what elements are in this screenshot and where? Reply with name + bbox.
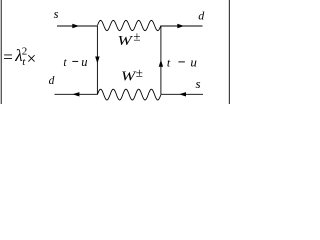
- arrow on top-right fermion line (pointing right): [177, 24, 184, 28]
- svg-text:s: s: [54, 7, 59, 21]
- label W+- (top boson): [118, 29, 141, 49]
- svg-text:×: ×: [27, 49, 37, 68]
- svg-text:W: W: [118, 33, 134, 48]
- svg-text:s: s: [196, 76, 201, 91]
- prefactor formula = lambda_t^2 x: [3, 46, 36, 69]
- wire: top-right fermion line d: [161, 25, 203, 27]
- arrow on bottom-right fermion line (pointing left): [179, 92, 186, 96]
- internal quark line left vertical: [96, 26, 98, 94]
- wire: top-left fermion line s: [57, 25, 97, 27]
- svg-text:d: d: [49, 75, 55, 87]
- svg-text:=: =: [3, 48, 13, 67]
- svg-text:u: u: [190, 55, 197, 70]
- svg-text:±: ±: [133, 29, 140, 44]
- wire: bottom-right fermion line s: [161, 93, 203, 95]
- internal quark line right vertical: [160, 26, 162, 94]
- label t-u (left internal quark): [63, 55, 87, 69]
- W boson propagator top (wavy): [97, 20, 160, 30]
- svg-text:u: u: [81, 55, 87, 69]
- arrow on bottom-left fermion line (pointing left): [72, 92, 79, 96]
- svg-text:±: ±: [136, 65, 143, 80]
- right column rule: [228, 0, 230, 104]
- svg-text:t: t: [167, 56, 171, 70]
- svg-text:t: t: [63, 57, 67, 69]
- W boson propagator bottom (wavy): [97, 89, 160, 100]
- label W+- (bottom boson): [121, 65, 143, 84]
- left column rule: [0, 0, 2, 104]
- arrow on top-left fermion line (pointing right): [72, 24, 79, 28]
- arrow on left internal line (pointing down): [95, 57, 99, 64]
- wire: bottom-left fermion line d: [55, 93, 98, 95]
- svg-text:d: d: [198, 9, 205, 23]
- label t-u (right internal quark): [167, 55, 198, 70]
- arrow on right internal line (pointing up): [159, 60, 163, 67]
